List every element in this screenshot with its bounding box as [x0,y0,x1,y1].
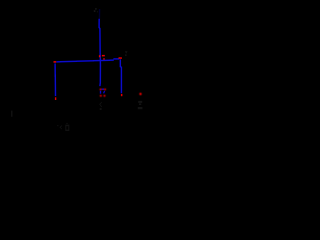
dim label right of right net top [125,51,128,56]
wire: stub below top-left pin [100,91,102,94]
dim ground label glyphs bottom-left [57,123,69,131]
pin cue: transistor top-right [104,88,106,90]
junction dot on supply net above crossing [99,55,101,57]
wire: left vertical net x=55 [54,63,56,96]
endpoint cue: floating bar right of supply net [102,55,105,57]
endpoint cue: bottom of left vertical net [55,97,56,100]
wire: slanted stub below top-right pin [104,91,105,94]
endpoint cue: bottom of right vertical net [121,94,123,96]
pin cue: transistor top-left [100,88,102,90]
wire: long horizontal net from left endpoint to right [56,60,114,62]
endpoint cue: left end of horizontal net [54,61,57,63]
pin cue: transistor bottom-left [100,95,102,97]
wire: main vertical supply net x=100 [99,19,100,86]
wire: right vertical net x=120.5 [120,59,121,93]
endpoint cue: small dot below floating bar [103,58,105,59]
dim tick at left margin [11,111,13,117]
wire: stub between transistor top pins [102,88,105,90]
wire: upper-right horizontal net segment [113,58,119,60]
wire: dim pin stub at top of supply net [98,9,100,19]
power symbol label (dim) near top of supply wire [94,8,98,12]
endpoint cue: bar at top of right vertical net [119,57,122,59]
pin cue: isolated pin dot right side [139,93,141,95]
pin cue: transistor bottom-right [103,95,105,97]
dim emitter arrow below transistor [99,102,102,110]
dim label below isolated pin [138,101,143,109]
